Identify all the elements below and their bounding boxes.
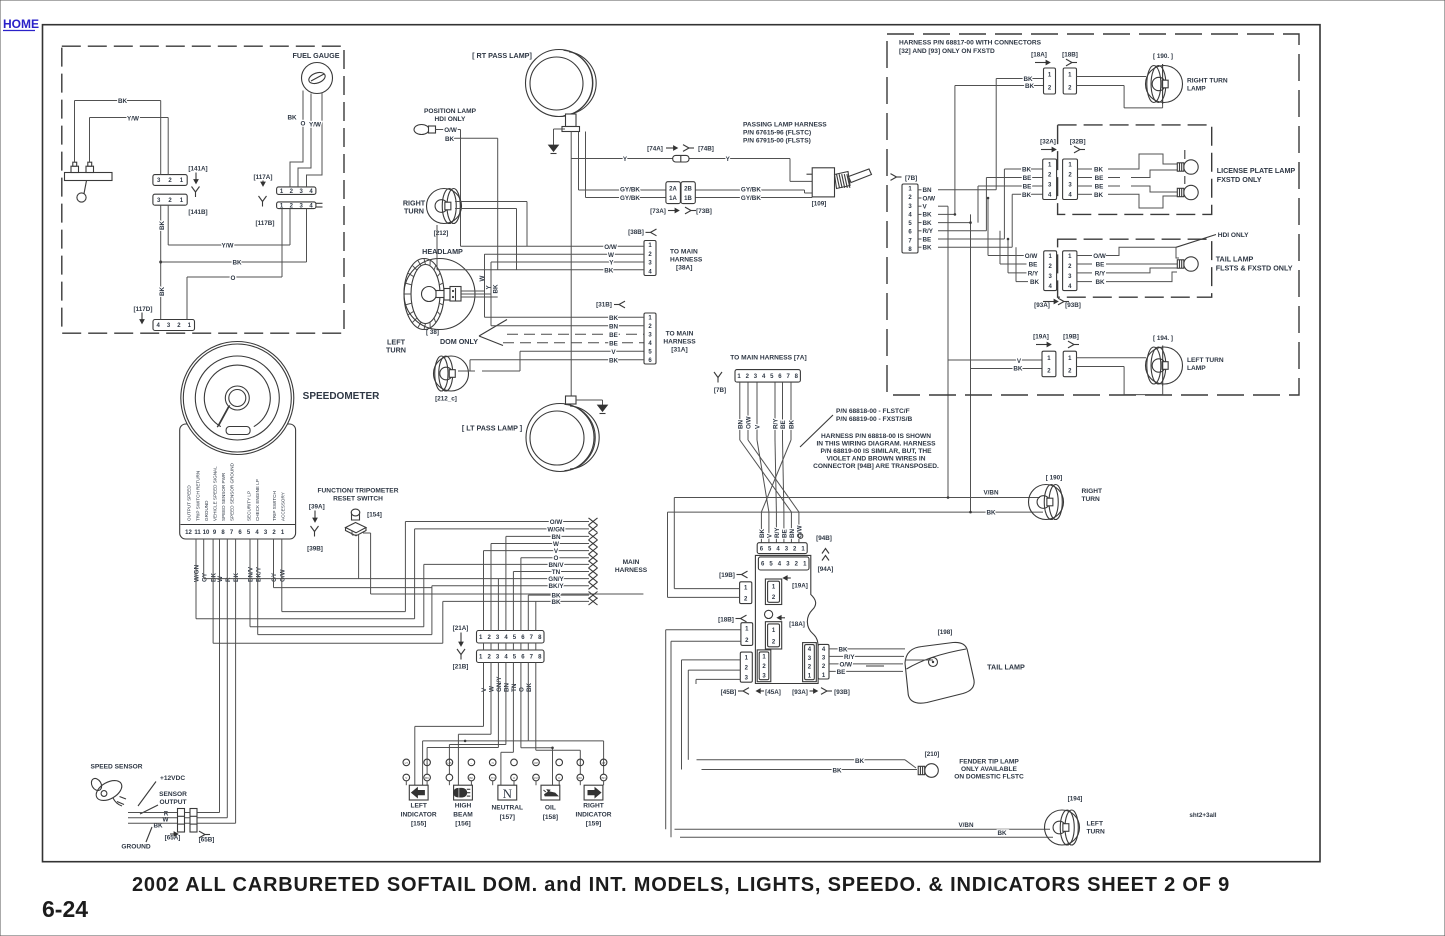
svg-text:BK: BK: [838, 647, 848, 654]
svg-text:TAIL LAMP: TAIL LAMP: [1216, 254, 1254, 263]
svg-text:[18B]: [18B]: [1062, 52, 1078, 59]
svg-text:[21B]: [21B]: [453, 664, 469, 671]
svg-text:BK: BK: [1094, 167, 1104, 174]
svg-text:2B: 2B: [684, 186, 692, 192]
svg-text:[93A]: [93A]: [1034, 302, 1050, 309]
svg-text:INDICATOR: INDICATOR: [575, 812, 611, 819]
svg-text:BK: BK: [232, 260, 242, 267]
svg-text:[39A]: [39A]: [309, 503, 325, 510]
svg-text:·: ·: [514, 761, 515, 765]
svg-text:BK: BK: [425, 776, 429, 780]
svg-text:2002 ALL CARBURETED SOFTAIL DO: 2002 ALL CARBURETED SOFTAIL DOM. and INT…: [132, 874, 1230, 896]
svg-text:W/GN: W/GN: [547, 526, 565, 533]
svg-text:GN/Y: GN/Y: [496, 676, 503, 692]
svg-text:BN/V: BN/V: [248, 566, 255, 582]
svg-text:BK: BK: [789, 419, 796, 429]
svg-text:V/BN: V/BN: [958, 822, 973, 829]
svg-text:BK: BK: [1022, 192, 1032, 199]
svg-text:SPEED SENSOR: SPEED SENSOR: [90, 764, 142, 771]
svg-text:[93A]: [93A]: [792, 689, 808, 696]
svg-text:[ LT PASS LAMP ]: [ LT PASS LAMP ]: [462, 424, 522, 433]
svg-text:HDI ONLY: HDI ONLY: [435, 116, 467, 123]
svg-text:BN: BN: [789, 528, 796, 538]
svg-text:TAIL LAMP: TAIL LAMP: [987, 663, 1025, 672]
svg-text:BEAM: BEAM: [453, 812, 473, 819]
svg-text:BK: BK: [526, 682, 533, 692]
svg-text:V: V: [405, 776, 407, 780]
svg-text:BK: BK: [832, 767, 842, 774]
svg-text:[ RT PASS LAMP]: [ RT PASS LAMP]: [472, 51, 532, 60]
svg-text:BK: BK: [159, 220, 166, 230]
svg-text:[32B]: [32B]: [1070, 139, 1086, 146]
svg-text:TO MAIN: TO MAIN: [666, 331, 694, 338]
svg-text:GROUND: GROUND: [121, 844, 151, 851]
svg-text:BE: BE: [1095, 175, 1104, 182]
svg-text:[19B]: [19B]: [719, 572, 735, 579]
svg-text:R/Y: R/Y: [1095, 270, 1106, 277]
svg-text:BK: BK: [578, 776, 582, 780]
svg-text:HARNESS: HARNESS: [615, 567, 648, 574]
svg-text:[7B]: [7B]: [905, 175, 917, 182]
svg-text:VEHICLE SPEED SIGNAL: VEHICLE SPEED SIGNAL: [213, 466, 218, 521]
svg-text:RIGHT: RIGHT: [583, 803, 604, 810]
svg-text:10: 10: [203, 530, 210, 536]
svg-text:Y/W: Y/W: [309, 122, 321, 129]
svg-text:12: 12: [185, 530, 192, 536]
svg-text:RESET SWITCH: RESET SWITCH: [333, 496, 383, 503]
svg-text:RIGHT: RIGHT: [1082, 488, 1103, 495]
svg-text:BK: BK: [923, 220, 933, 227]
svg-text:TN: TN: [511, 683, 518, 692]
svg-text:[38B]: [38B]: [628, 229, 644, 236]
svg-text:BK/Y: BK/Y: [548, 583, 564, 590]
svg-text:[158]: [158]: [543, 814, 558, 821]
svg-text:R/Y: R/Y: [844, 654, 855, 661]
svg-text:[194]: [194]: [1068, 795, 1083, 802]
svg-text:[155]: [155]: [411, 821, 426, 828]
svg-text:BK: BK: [609, 357, 619, 364]
svg-text:BE: BE: [1023, 175, 1032, 182]
svg-text:2A: 2A: [669, 186, 677, 192]
svg-text:BE: BE: [609, 340, 618, 347]
svg-text:HIGH: HIGH: [455, 803, 472, 810]
svg-text:P/N 68819-00 - FXST/S/B: P/N 68819-00 - FXST/S/B: [836, 416, 912, 423]
svg-text:POSITION LAMP: POSITION LAMP: [424, 108, 477, 115]
svg-text:[7B]: [7B]: [714, 387, 726, 394]
svg-text:BN: BN: [504, 682, 511, 692]
svg-text:RT: RT: [602, 761, 606, 765]
svg-text:BK: BK: [1013, 366, 1023, 373]
svg-text:W: W: [489, 686, 496, 692]
svg-text:TO MAIN: TO MAIN: [670, 249, 698, 256]
svg-text:O: O: [301, 121, 306, 128]
svg-text:BK: BK: [1094, 192, 1104, 199]
svg-text:[141A]: [141A]: [188, 166, 207, 173]
svg-text:BN: BN: [737, 419, 744, 429]
svg-text:−: −: [471, 761, 473, 765]
svg-text:[65A]: [65A]: [165, 834, 181, 841]
svg-text:[19B]: [19B]: [1063, 334, 1079, 341]
svg-text:[39B]: [39B]: [307, 546, 323, 553]
svg-text:P/N 67915-00 (FLSTS): P/N 67915-00 (FLSTS): [743, 138, 811, 145]
svg-text:GY/BK: GY/BK: [620, 187, 640, 194]
svg-text:FXSTD ONLY: FXSTD ONLY: [1217, 175, 1262, 184]
svg-text:BK: BK: [159, 286, 166, 296]
svg-text:sht2+3all: sht2+3all: [1189, 812, 1216, 819]
svg-text:O/W: O/W: [1093, 253, 1106, 260]
svg-text:VIOLET AND BROWN WIRES IN: VIOLET AND BROWN WIRES IN: [826, 456, 925, 463]
svg-text:·: ·: [559, 761, 560, 765]
svg-text:O/W: O/W: [923, 195, 936, 202]
svg-text:BN: BN: [923, 187, 933, 194]
svg-text:OUTPUT SPEED: OUTPUT SPEED: [187, 485, 192, 521]
svg-text:BE: BE: [1096, 262, 1105, 269]
svg-text:P/N 67615-96 (FLSTC): P/N 67615-96 (FLSTC): [743, 130, 811, 137]
svg-text:[117A]: [117A]: [254, 174, 273, 181]
svg-text:[ 190]: [ 190]: [1046, 475, 1062, 482]
svg-text:[210]: [210]: [925, 751, 940, 758]
svg-text:TURN: TURN: [1082, 496, 1101, 503]
svg-text:TO MAIN HARNESS [7A]: TO MAIN HARNESS [7A]: [730, 355, 806, 362]
svg-text:BK: BK: [1030, 279, 1040, 286]
svg-text:V/BN: V/BN: [983, 490, 998, 497]
svg-text:TN: TN: [552, 569, 561, 576]
svg-text:[74A]: [74A]: [647, 146, 663, 153]
svg-text:[31A]: [31A]: [671, 347, 688, 354]
svg-text:[ 38]: [ 38]: [426, 329, 439, 336]
svg-text:1B: 1B: [684, 196, 692, 202]
svg-text:PASSING LAMP HARNESS: PASSING LAMP HARNESS: [743, 122, 827, 129]
svg-text:[45B]: [45B]: [721, 689, 737, 696]
svg-text:O/W: O/W: [1025, 253, 1038, 260]
svg-text:[159]: [159]: [586, 821, 601, 828]
svg-text:BK: BK: [445, 136, 455, 143]
svg-text:[74B]: [74B]: [698, 146, 714, 153]
svg-text:O/W: O/W: [279, 569, 286, 582]
svg-text:BE: BE: [837, 669, 846, 676]
svg-text:LEFT: LEFT: [410, 803, 426, 810]
svg-text:NEUTRAL: NEUTRAL: [492, 805, 524, 812]
svg-text:BK: BK: [759, 528, 766, 538]
svg-text:[19A]: [19A]: [1033, 334, 1049, 341]
svg-text:BE: BE: [1029, 262, 1038, 269]
svg-text:OP: OP: [534, 761, 538, 765]
svg-text:SECURITY LP: SECURITY LP: [247, 491, 252, 521]
svg-text:BK: BK: [287, 115, 297, 122]
svg-text:[38A]: [38A]: [676, 265, 693, 272]
svg-text:GY: GY: [271, 572, 278, 582]
svg-text:HDI ONLY: HDI ONLY: [1218, 232, 1250, 239]
svg-text:TURN: TURN: [1087, 829, 1106, 836]
svg-text:BE: BE: [782, 529, 789, 538]
svg-text:[18B]: [18B]: [718, 616, 734, 623]
svg-text:R/Y: R/Y: [774, 527, 781, 538]
svg-text:[31B]: [31B]: [596, 302, 612, 309]
svg-text:SPEED SENSOR PWR: SPEED SENSOR PWR: [221, 472, 226, 521]
svg-text:[45A]: [45A]: [765, 689, 781, 696]
svg-text:R/Y: R/Y: [1028, 270, 1039, 277]
svg-text:Y/W: Y/W: [222, 243, 234, 250]
svg-text:O/W: O/W: [550, 519, 563, 526]
svg-text:RIGHT TURN: RIGHT TURN: [1187, 78, 1228, 85]
svg-text:SENSOR: SENSOR: [159, 791, 187, 798]
svg-text:[154]: [154]: [367, 512, 382, 519]
svg-text:FENDER TIP LAMP: FENDER TIP LAMP: [959, 759, 1019, 766]
svg-text:TRIP SWITCH RETURN: TRIP SWITCH RETURN: [196, 471, 201, 521]
svg-text:OUTPUT: OUTPUT: [159, 799, 186, 806]
svg-text:[93B]: [93B]: [834, 689, 850, 696]
svg-text:R/Y: R/Y: [773, 418, 780, 429]
svg-text:MAIN: MAIN: [623, 559, 640, 566]
svg-text:[93B]: [93B]: [1065, 302, 1081, 309]
svg-text:O: O: [519, 687, 526, 692]
svg-text:BK: BK: [493, 284, 500, 294]
svg-text:[32] AND [93] ONLY ON FXSTD: [32] AND [93] ONLY ON FXSTD: [899, 48, 995, 55]
svg-text:BK: BK: [604, 267, 614, 274]
svg-text:LAMP: LAMP: [1187, 86, 1206, 93]
svg-text:HEADLAMP: HEADLAMP: [422, 247, 463, 256]
svg-text:−: −: [426, 761, 428, 765]
svg-text:P/N 68818-00 - FLSTC/F: P/N 68818-00 - FLSTC/F: [836, 408, 910, 415]
svg-text:CONNECTOR [94B] ARE TRANSPOSE: CONNECTOR [94B] ARE TRANSPOSED.: [813, 463, 939, 470]
svg-text:TURN: TURN: [386, 346, 406, 355]
svg-text:[117B]: [117B]: [256, 220, 275, 227]
svg-text:GY: GY: [201, 572, 208, 582]
svg-text:BK: BK: [609, 315, 619, 322]
svg-text:BK: BK: [986, 510, 996, 517]
svg-text:[ 190. ]: [ 190. ]: [1153, 53, 1173, 60]
svg-text:[212]: [212]: [434, 230, 449, 237]
svg-text:N: N: [503, 786, 513, 801]
svg-text:·: ·: [449, 776, 450, 780]
svg-text:[157]: [157]: [500, 814, 515, 821]
svg-text:[109]: [109]: [812, 201, 827, 208]
svg-text:6-24: 6-24: [42, 896, 88, 922]
svg-text:BE: BE: [1023, 184, 1032, 191]
svg-text:BK/Y: BK/Y: [255, 566, 262, 582]
svg-text:[65B]: [65B]: [199, 836, 215, 843]
svg-text:TURN: TURN: [404, 207, 424, 216]
svg-text:BE: BE: [1095, 184, 1104, 191]
svg-text:INDICATOR: INDICATOR: [401, 812, 437, 819]
svg-text:[73B]: [73B]: [696, 208, 712, 215]
svg-text:[156]: [156]: [455, 821, 470, 828]
svg-text:GROUND: GROUND: [204, 500, 209, 521]
svg-text:HARNESS P/N 68817-00 WITH CONN: HARNESS P/N 68817-00 WITH CONNECTORS: [899, 40, 1042, 47]
svg-text:[212_c]: [212_c]: [435, 396, 457, 403]
svg-text:GY/BK: GY/BK: [741, 195, 761, 202]
svg-text:O/W: O/W: [604, 244, 617, 251]
svg-text:GN/Y: GN/Y: [548, 576, 564, 583]
svg-text:SPEED SENSOR GROUND: SPEED SENSOR GROUND: [230, 462, 235, 521]
svg-text:TRIP SWITCH: TRIP SWITCH: [272, 491, 277, 521]
svg-text:CHECK ENGINE LP: CHECK ENGINE LP: [255, 479, 260, 521]
svg-text:BE: BE: [780, 420, 787, 429]
svg-text:GY/BK: GY/BK: [741, 187, 761, 194]
svg-text:[18A]: [18A]: [789, 621, 805, 628]
svg-text:ONLY AVAILABLE: ONLY AVAILABLE: [961, 766, 1018, 773]
svg-text:BK: BK: [118, 98, 128, 105]
svg-text:HARNESS: HARNESS: [663, 339, 696, 346]
svg-text:LAMP: LAMP: [1187, 365, 1206, 372]
svg-text:[94B]: [94B]: [816, 535, 832, 542]
svg-text:[21A]: [21A]: [453, 625, 469, 632]
svg-text:BK: BK: [1095, 279, 1105, 286]
svg-text:BN/V: BN/V: [548, 562, 564, 569]
svg-text:BK: BK: [855, 758, 865, 765]
svg-text:BK: BK: [469, 776, 473, 780]
svg-text:OIL: OIL: [545, 805, 556, 812]
svg-text:BN: BN: [609, 323, 619, 330]
svg-text:+12VDC: +12VDC: [160, 775, 185, 782]
svg-text:IN THIS WIRING DIAGRAM. HARNE: IN THIS WIRING DIAGRAM. HARNESS: [816, 441, 936, 448]
svg-text:[ 194. ]: [ 194. ]: [1153, 335, 1173, 342]
svg-text:LEFT: LEFT: [1087, 821, 1103, 828]
svg-text:BE: BE: [923, 236, 932, 243]
svg-text:LT: LT: [405, 761, 408, 765]
svg-text:[94A]: [94A]: [818, 566, 834, 573]
svg-text:O: O: [231, 275, 236, 282]
svg-text:BK: BK: [997, 830, 1007, 837]
svg-text:BN: BN: [602, 776, 606, 780]
svg-text:ON DOMESTIC FLSTC: ON DOMESTIC FLSTC: [954, 774, 1024, 781]
svg-text:[32A]: [32A]: [1040, 139, 1056, 146]
svg-text:O/W: O/W: [746, 416, 753, 429]
svg-text:1A: 1A: [669, 196, 677, 202]
svg-text:BK: BK: [1025, 83, 1035, 90]
svg-text:11: 11: [194, 530, 201, 536]
svg-text:ACCESSORY: ACCESSORY: [281, 492, 286, 521]
svg-text:GY/BK: GY/BK: [620, 195, 640, 202]
svg-text:HOME: HOME: [3, 17, 39, 31]
svg-text:[141B]: [141B]: [188, 209, 207, 216]
svg-text:BK: BK: [1022, 167, 1032, 174]
svg-text:W: W: [608, 252, 614, 259]
svg-text:HARNESS P/N 68818-00 IS SHOWN: HARNESS P/N 68818-00 IS SHOWN: [821, 433, 931, 440]
svg-text:LICENSE PLATE LAMP: LICENSE PLATE LAMP: [1217, 166, 1296, 175]
svg-text:[18A]: [18A]: [1031, 52, 1047, 59]
svg-text:[19A]: [19A]: [792, 582, 808, 589]
svg-text:W/GN: W/GN: [194, 564, 201, 582]
svg-text:P/N 68819-00 IS SIMILAR, BUT,: P/N 68819-00 IS SIMILAR, BUT, THE: [820, 448, 932, 455]
svg-text:BK: BK: [551, 599, 561, 606]
svg-text:R/Y: R/Y: [923, 228, 934, 235]
svg-text:HARNESS: HARNESS: [670, 257, 703, 264]
svg-text:GN/Y: GN/Y: [532, 776, 539, 780]
svg-text:HB: HB: [447, 761, 451, 765]
svg-text:BN: BN: [551, 534, 561, 541]
svg-text:FUNCTION/ TRIPOMETER: FUNCTION/ TRIPOMETER: [318, 488, 399, 495]
svg-text:FLSTS & FXSTD ONLY: FLSTS & FXSTD ONLY: [1216, 263, 1293, 272]
svg-text:Y/W: Y/W: [127, 115, 139, 122]
svg-text:[198]: [198]: [938, 629, 953, 636]
svg-text:W: W: [553, 541, 559, 548]
svg-text:BK: BK: [923, 212, 933, 219]
svg-text:O/W: O/W: [840, 662, 853, 669]
svg-text:BK: BK: [1023, 76, 1033, 83]
svg-text:N: N: [492, 761, 494, 765]
svg-text:R: R: [225, 577, 232, 582]
svg-text:O/W: O/W: [444, 127, 457, 134]
svg-text:BK: BK: [923, 245, 933, 252]
svg-text:LEFT TURN: LEFT TURN: [1187, 357, 1224, 364]
svg-text:FUEL GAUGE: FUEL GAUGE: [293, 51, 340, 60]
svg-text:TN: TN: [491, 776, 495, 780]
svg-text:[73A]: [73A]: [650, 208, 666, 215]
svg-text:DOM ONLY: DOM ONLY: [440, 337, 478, 346]
svg-text:BK: BK: [233, 572, 240, 582]
svg-text:BE: BE: [609, 332, 618, 339]
svg-text:SPEEDOMETER: SPEEDOMETER: [303, 391, 380, 402]
svg-text:[117D]: [117D]: [134, 306, 153, 313]
svg-text:−: −: [579, 761, 581, 765]
